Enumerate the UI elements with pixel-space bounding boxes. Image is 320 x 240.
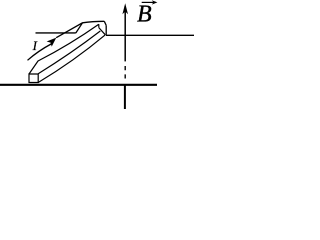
B-field arrow shaft: [124, 6, 126, 61]
rod ridge long edge: [38, 31, 100, 74]
dashed boundary vertical: [124, 66, 126, 79]
boundary steep edge at rod: [76, 23, 83, 33]
current arrow shaft: [28, 44, 53, 61]
rod top-left long edge (kinked+bowed): [29, 24, 99, 74]
rod right end vertical edge: [105, 25, 107, 34]
ground line: [0, 84, 157, 86]
svg-text:B: B: [137, 2, 152, 28]
rod right end bevel edge: [104, 21, 106, 25]
rod right end bottom diagonal: [99, 28, 106, 35]
current arrowhead: [47, 38, 57, 47]
B-field arrowhead: [122, 3, 128, 14]
field boundary line left segment: [36, 32, 76, 34]
vector arrow over B: [142, 1, 156, 3]
solid vertical below ground: [124, 84, 126, 109]
rod left end face: [29, 74, 38, 83]
rod right end small vertical: [98, 24, 100, 27]
rod bottom-front long edge: [38, 35, 105, 83]
svg-text:I: I: [32, 38, 38, 53]
rod rear-top edge beyond arrowhead to flat top: [56, 21, 104, 37]
field boundary line right segment: [106, 34, 194, 36]
